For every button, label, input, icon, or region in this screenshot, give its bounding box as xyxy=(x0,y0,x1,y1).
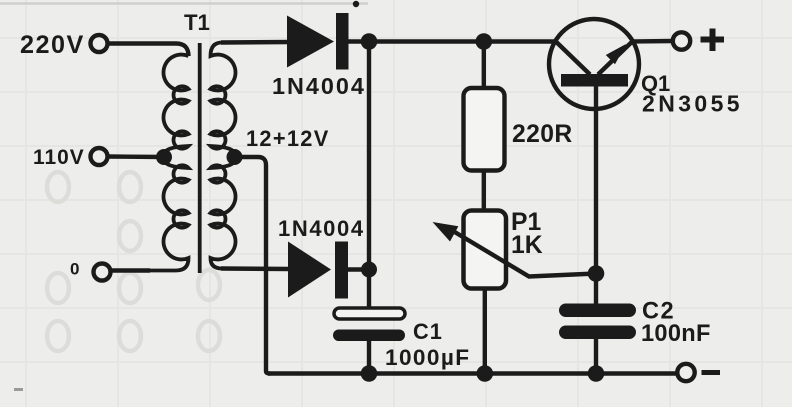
transformer T1 secondary winding xyxy=(211,43,236,269)
wire node down to C1 xyxy=(367,42,371,313)
stray ink speck xyxy=(353,1,359,7)
wire 220V to T1 primary top xyxy=(108,44,189,57)
svg-text:220V: 220V xyxy=(20,31,85,59)
junction dot primary tap xyxy=(156,149,172,165)
wire P1 bottom to rail xyxy=(483,289,487,374)
junction dot C1 bottom on rail xyxy=(361,365,378,382)
svg-text:220R: 220R xyxy=(512,121,573,148)
potentiometer P1 body xyxy=(464,211,507,289)
minus sign xyxy=(702,370,721,375)
transformer T1 core xyxy=(198,43,202,273)
ghost bleed-through digits xyxy=(47,172,220,351)
svg-text:1000µF: 1000µF xyxy=(385,345,470,370)
svg-text:2N3055: 2N3055 xyxy=(642,91,743,117)
wire Q1 base down to wiper node and C2 xyxy=(594,87,598,311)
transistor Q1 collector stroke xyxy=(556,42,590,75)
bottom-left scan dash xyxy=(14,388,23,391)
wire C2 bottom to rail xyxy=(594,332,598,374)
junction dot C2 bottom on rail xyxy=(588,365,605,382)
diode D1 1N4004 triangle xyxy=(287,16,334,68)
junction dot P1 bottom on rail xyxy=(477,365,494,382)
terminal 110V xyxy=(91,148,108,165)
plus sign xyxy=(701,29,725,52)
terminal 220V xyxy=(91,35,108,52)
svg-text:110V: 110V xyxy=(33,146,85,169)
wire D2 cathode to node xyxy=(348,267,369,271)
wire secondary bottom to diode D2 xyxy=(221,266,290,271)
svg-text:1K: 1K xyxy=(511,232,543,259)
junction dot D1 output node xyxy=(361,33,378,50)
top edge scan streak xyxy=(0,2,368,5)
wire 220R top lead xyxy=(482,42,486,91)
wire 0 to T1 primary bottom xyxy=(111,268,151,272)
transformer T1 primary winding xyxy=(149,55,189,271)
capacitor C2 bottom plate xyxy=(559,326,636,340)
diode D1 cathode bar xyxy=(336,13,349,70)
junction dot 220R top node xyxy=(476,33,493,50)
transistor Q1 circle xyxy=(549,19,639,109)
terminal - output xyxy=(677,364,694,381)
diode D2 1N4004 triangle xyxy=(288,242,331,298)
svg-text:0: 0 xyxy=(70,260,79,279)
wire top rail node to transistor collector xyxy=(369,39,556,43)
junction dot D2 output node xyxy=(361,262,377,278)
wire emitter to + terminal xyxy=(632,39,673,44)
capacitor C2 top plate xyxy=(559,304,636,318)
negative rail wire xyxy=(268,371,678,376)
transistor Q1 emitter arrowhead xyxy=(606,44,626,64)
svg-text:12+12V: 12+12V xyxy=(246,126,330,151)
terminal + output xyxy=(673,32,690,49)
wire 220R to P1 xyxy=(482,171,486,213)
potentiometer wiper arrow xyxy=(448,228,596,277)
resistor 220R body xyxy=(464,88,505,171)
wire C1 bottom to rail xyxy=(367,340,371,374)
junction dot secondary centre tap 12+12V xyxy=(227,149,243,165)
svg-text:C1: C1 xyxy=(413,319,443,344)
svg-text:100nF: 100nF xyxy=(641,321,711,347)
capacitor C1 top plate xyxy=(334,308,405,319)
wire 110V to primary tap xyxy=(108,154,165,159)
wire centre tap down to negative rail xyxy=(235,157,271,374)
diode D2 cathode bar xyxy=(335,242,348,299)
transistor Q1 base bar xyxy=(561,74,628,87)
terminal 0 xyxy=(94,264,111,281)
capacitor C1 bottom plate xyxy=(333,330,405,342)
wire secondary top to diode D1 xyxy=(221,40,290,45)
transistor Q1 emitter stroke xyxy=(598,42,632,75)
svg-text:1N4004: 1N4004 xyxy=(278,216,365,241)
wire D1 cathode to node xyxy=(349,39,370,43)
svg-text:T1: T1 xyxy=(184,10,210,35)
junction dot base/wiper/C2 node xyxy=(588,265,605,282)
svg-text:1N4004: 1N4004 xyxy=(272,73,366,99)
